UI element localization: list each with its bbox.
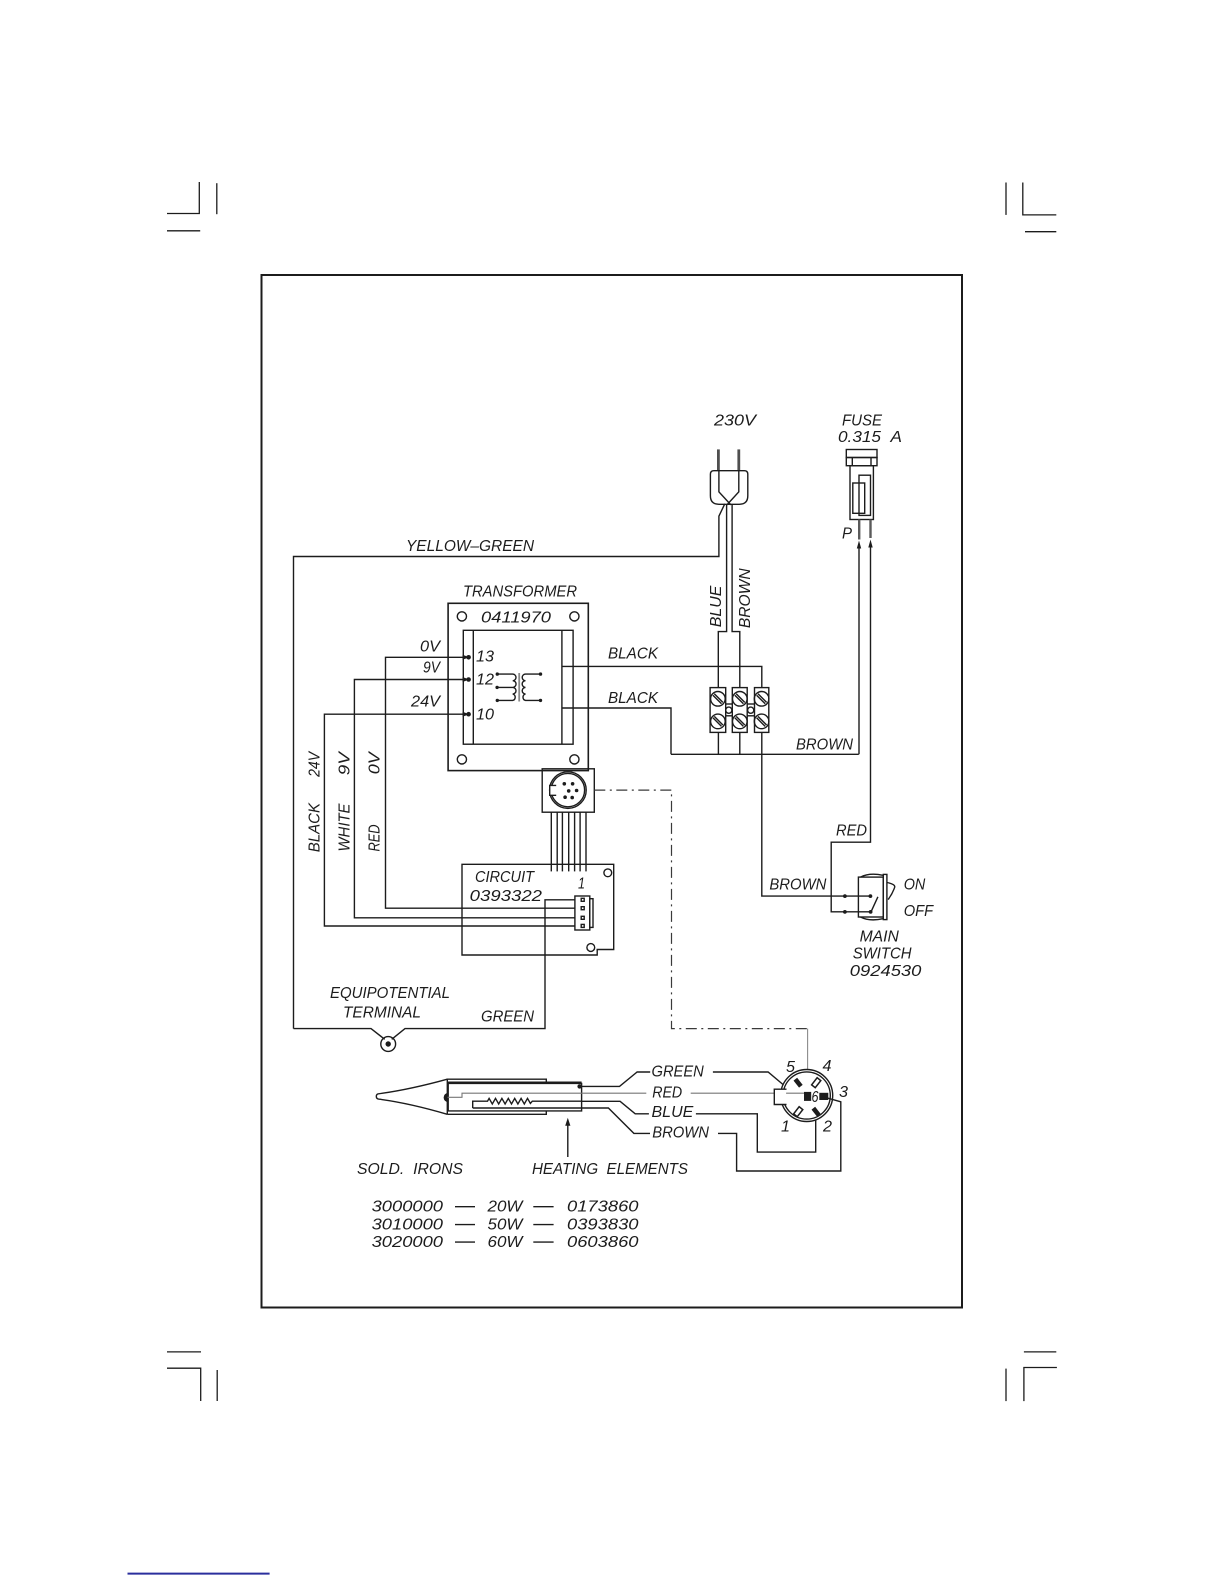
connector pin 1 — [794, 1107, 803, 1117]
svg-text:RED: RED — [367, 824, 384, 851]
svg-text:24V: 24V — [410, 694, 441, 711]
wire black upper: transformer to terminal 3 — [562, 666, 762, 687]
svg-text:GREEN: GREEN — [481, 1009, 534, 1026]
wire red label to connector pin6 — [691, 1092, 805, 1094]
svg-text:TERMINAL: TERMINAL — [343, 1005, 421, 1022]
svg-text:20W: 20W — [486, 1199, 524, 1216]
circuit board U1 — [462, 864, 614, 955]
svg-text:SOLD. IRONS: SOLD. IRONS — [357, 1161, 463, 1178]
svg-text:9V: 9V — [423, 660, 441, 677]
svg-text:60W: 60W — [488, 1234, 525, 1251]
transformer T1 body — [448, 603, 588, 770]
connector pin 2 — [812, 1107, 821, 1117]
equipotential terminal E1 — [381, 1037, 396, 1052]
svg-text:13: 13 — [476, 649, 494, 666]
connector keyway — [775, 1089, 787, 1104]
svg-text:OFF: OFF — [904, 903, 935, 920]
crop mark top-left — [167, 182, 199, 214]
switch contacts — [843, 894, 872, 914]
svg-text:50W: 50W — [488, 1216, 525, 1233]
svg-text:0V: 0V — [367, 751, 384, 774]
connector pin 5 — [794, 1078, 803, 1088]
wire 9V white — [354, 680, 575, 918]
svg-text:3010000: 3010000 — [372, 1216, 444, 1233]
svg-text:TRANSFORMER: TRANSFORMER — [463, 584, 577, 601]
svg-text:BLACK: BLACK — [608, 646, 659, 663]
DIN socket pin dots — [563, 782, 579, 799]
blue printed rule bottom-left — [128, 1573, 270, 1575]
svg-text:5: 5 — [786, 1059, 795, 1076]
svg-text:WHITE: WHITE — [337, 803, 354, 851]
wire brown iron to label — [582, 1108, 650, 1133]
arrow to heating element — [567, 1124, 569, 1157]
svg-text:2: 2 — [822, 1118, 832, 1135]
soldering iron shell — [447, 1079, 546, 1114]
transformer winding symbol — [497, 674, 540, 700]
terminal screws — [711, 692, 769, 729]
svg-text:24V: 24V — [307, 751, 324, 778]
rocker switch S1 — [858, 874, 894, 920]
wire green equipotential to circuit pin1 — [294, 900, 575, 1040]
crop mark bottom-right — [1024, 1351, 1056, 1353]
svg-text:BROWN: BROWN — [769, 877, 826, 894]
svg-text:0393322: 0393322 — [470, 888, 542, 905]
chain line DIN to iron connector — [594, 790, 807, 1029]
svg-text:BLACK: BLACK — [307, 802, 324, 853]
svg-text:BROWN: BROWN — [652, 1125, 709, 1142]
svg-text:12: 12 — [476, 672, 494, 689]
wire green label to connector — [713, 1072, 783, 1085]
fuse pins P — [858, 520, 860, 540]
DIN socket J1 under transformer — [542, 769, 594, 812]
connector pin 3 — [819, 1093, 828, 1100]
svg-text:YELLOW–GREEN: YELLOW–GREEN — [406, 538, 534, 555]
crop mark bottom-left — [167, 1351, 201, 1353]
svg-text:HEATING ELEMENTS: HEATING ELEMENTS — [532, 1161, 688, 1178]
svg-text:230V: 230V — [713, 413, 758, 430]
pin 12 — [463, 677, 470, 682]
svg-text:EQUIPOTENTIAL: EQUIPOTENTIAL — [330, 985, 450, 1002]
wire black lower: transformer to junction row — [562, 708, 671, 754]
wire mains cord (blue/brown pair) — [718, 505, 740, 688]
svg-text:4: 4 — [823, 1058, 832, 1075]
svg-text:BROWN: BROWN — [737, 568, 754, 628]
wire red fuse to switch with arrowhead — [868, 540, 872, 548]
transformer core — [518, 673, 520, 702]
svg-text:ON: ON — [904, 877, 926, 894]
wire blue label to connector pin2 — [696, 1114, 816, 1152]
svg-text:0924530: 0924530 — [850, 963, 922, 980]
wire blue iron to label — [582, 1101, 649, 1114]
svg-text:1: 1 — [578, 876, 585, 893]
svg-text:9V: 9V — [337, 751, 354, 776]
DIN socket keyway — [550, 786, 556, 796]
wire green iron to label — [580, 1072, 651, 1086]
svg-text:0173860: 0173860 — [567, 1199, 639, 1216]
diagram border frame — [262, 275, 963, 1308]
connector pin 6 — [804, 1092, 811, 1101]
wire 0V red — [386, 657, 575, 908]
ribbon cable to circuit — [551, 812, 586, 871]
wire junction row under terminals — [671, 732, 859, 754]
heating element R1 zigzag — [473, 1098, 582, 1108]
soldering iron heater tube — [448, 1083, 581, 1111]
svg-text:0393830: 0393830 — [567, 1216, 639, 1233]
pin 10 — [463, 712, 470, 717]
svg-text:BROWN: BROWN — [796, 737, 853, 754]
circuit connector 4-pin — [575, 896, 593, 930]
terminal block X1 — [710, 688, 769, 733]
svg-text:0.315 A: 0.315 A — [838, 429, 902, 446]
svg-text:0411970: 0411970 — [481, 610, 551, 627]
wire yellow-green from plug to left frame — [294, 504, 725, 1029]
svg-text:CIRCUIT: CIRCUIT — [475, 869, 535, 886]
svg-text:FUSE: FUSE — [842, 413, 882, 430]
svg-text:BLUE: BLUE — [708, 585, 725, 627]
fuse F1 — [846, 450, 877, 520]
wire brown label to connector pin3 — [718, 1097, 841, 1171]
svg-text:BLUE: BLUE — [652, 1104, 694, 1121]
pin 13 — [463, 655, 470, 660]
svg-text:RED: RED — [836, 823, 867, 840]
svg-text:SWITCH: SWITCH — [853, 945, 912, 962]
crop mark top-right — [1023, 183, 1057, 215]
connector pin 4 — [812, 1078, 821, 1088]
svg-text:0603860: 0603860 — [567, 1234, 639, 1251]
svg-text:10: 10 — [476, 707, 494, 724]
iron connector J2 circle — [781, 1070, 833, 1122]
svg-text:3000000: 3000000 — [372, 1199, 444, 1216]
mains plug P1 — [710, 449, 747, 505]
wire brown terminal2 to fuse with arrowhead — [857, 541, 861, 549]
svg-text:6: 6 — [812, 1089, 819, 1106]
svg-text:BLACK: BLACK — [608, 690, 659, 707]
svg-text:1: 1 — [781, 1118, 790, 1135]
svg-text:3020000: 3020000 — [372, 1234, 444, 1251]
svg-text:P: P — [842, 526, 852, 543]
wire 24V black — [324, 714, 575, 926]
tip mount black blob — [444, 1093, 449, 1102]
svg-text:0V: 0V — [420, 639, 441, 656]
svg-text:3: 3 — [839, 1084, 848, 1101]
wire brown terminal3 to switch — [762, 732, 845, 896]
svg-text:MAIN: MAIN — [860, 929, 900, 946]
soldering iron tip — [376, 1079, 447, 1114]
svg-text:RED: RED — [652, 1085, 682, 1102]
svg-text:GREEN: GREEN — [652, 1064, 705, 1081]
wire red inside iron — [448, 1093, 647, 1097]
node green junction — [577, 1084, 581, 1088]
